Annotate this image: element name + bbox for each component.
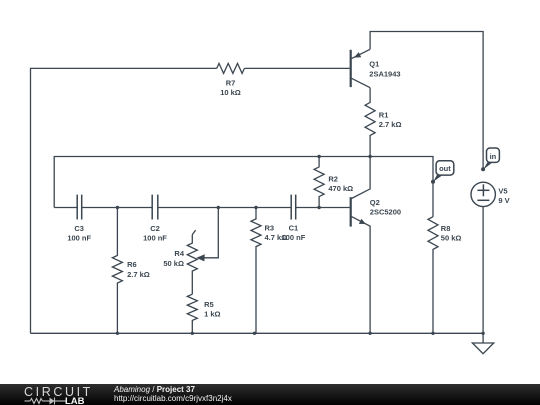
svg-text:R1: R1: [379, 110, 389, 119]
svg-text:100 nF: 100 nF: [67, 233, 91, 242]
svg-text:V5: V5: [498, 186, 507, 195]
svg-text:50 kΩ: 50 kΩ: [441, 234, 462, 243]
footer bar: [0, 384, 540, 405]
transistor Q2 base bar: [350, 197, 352, 226]
svg-text:2.7 kΩ: 2.7 kΩ: [379, 120, 402, 129]
svg-text:2SC5200: 2SC5200: [370, 208, 401, 217]
svg-text:2.7 kΩ: 2.7 kΩ: [127, 270, 150, 279]
wire lower rail y207: [54, 207, 77, 209]
svg-text:100 nF: 100 nF: [282, 233, 306, 242]
svg-text:R6: R6: [127, 260, 137, 269]
svg-text:R8: R8: [441, 224, 451, 233]
resistor R7: [217, 63, 245, 73]
svg-text:50 kΩ: 50 kΩ: [163, 259, 184, 268]
resistor R1: [365, 88, 375, 157]
wire V5 to ground: [482, 207, 484, 343]
wire left column: [31, 68, 217, 333]
resistor R3: [251, 208, 261, 334]
R4 wiper arrow: [196, 254, 204, 261]
transistor Q2 collector: [352, 157, 371, 199]
wire mid rail y156: [54, 157, 433, 217]
svg-text:100 nF: 100 nF: [143, 233, 167, 242]
svg-text:R5: R5: [204, 300, 214, 309]
svg-text:C1: C1: [289, 223, 299, 232]
svg-text:Q1: Q1: [369, 60, 379, 69]
circuitlab logo: [23, 384, 25, 386]
wire C3 to C2: [82, 207, 153, 209]
svg-text:1 kΩ: 1 kΩ: [204, 310, 220, 319]
svg-text:9 V: 9 V: [498, 196, 509, 205]
svg-text:Q2: Q2: [370, 198, 380, 207]
transistor Q2 emitter: [352, 217, 371, 334]
R4 wiper wire: [203, 208, 218, 258]
svg-text:in: in: [490, 152, 497, 161]
svg-text:C2: C2: [150, 224, 160, 233]
transistor Q1 emitter: [352, 49, 371, 58]
wire bottom ground rail: [31, 332, 484, 334]
capacitor C1: [291, 195, 296, 220]
V5 plus sign: [477, 189, 489, 191]
wire R7 right lead to Q1 base: [244, 67, 349, 69]
svg-text:2SA1943: 2SA1943: [369, 69, 400, 78]
wire C1 to Q2 base: [296, 207, 350, 209]
resistor R8: [428, 217, 438, 334]
svg-text:LAB: LAB: [65, 396, 85, 405]
svg-text:R4: R4: [174, 249, 184, 258]
wire C2 to C1: [158, 207, 291, 209]
resistor R2: [314, 157, 324, 208]
svg-text:C3: C3: [74, 224, 84, 233]
voltage source V5: [471, 182, 495, 206]
svg-text:R2: R2: [328, 174, 338, 183]
Q2 emitter arrow: [359, 219, 366, 224]
svg-text:R3: R3: [265, 223, 275, 232]
svg-text:R7: R7: [226, 78, 236, 87]
resistor R6: [112, 208, 122, 334]
resistor R5: [187, 294, 197, 333]
capacitor C2: [152, 195, 158, 220]
transistor Q1 base bar: [350, 50, 352, 87]
svg-text:10 kΩ: 10 kΩ: [220, 88, 241, 97]
wire top rail from Q1 emitter to right column: [370, 32, 483, 169]
resistor R4 potentiometer: [187, 235, 197, 295]
in flag: [483, 148, 499, 170]
transistor Q1 collector: [352, 78, 371, 87]
ground: [472, 343, 493, 354]
capacitor C3: [77, 195, 82, 220]
footer info text: [114, 385, 232, 404]
V5 minus sign: [477, 199, 489, 201]
out flag: [433, 161, 454, 182]
R4 top lead tip: [192, 230, 195, 234]
svg-text:out: out: [439, 164, 451, 173]
Q1 emitter arrow: [354, 52, 361, 58]
svg-text:470 kΩ: 470 kΩ: [328, 184, 353, 193]
